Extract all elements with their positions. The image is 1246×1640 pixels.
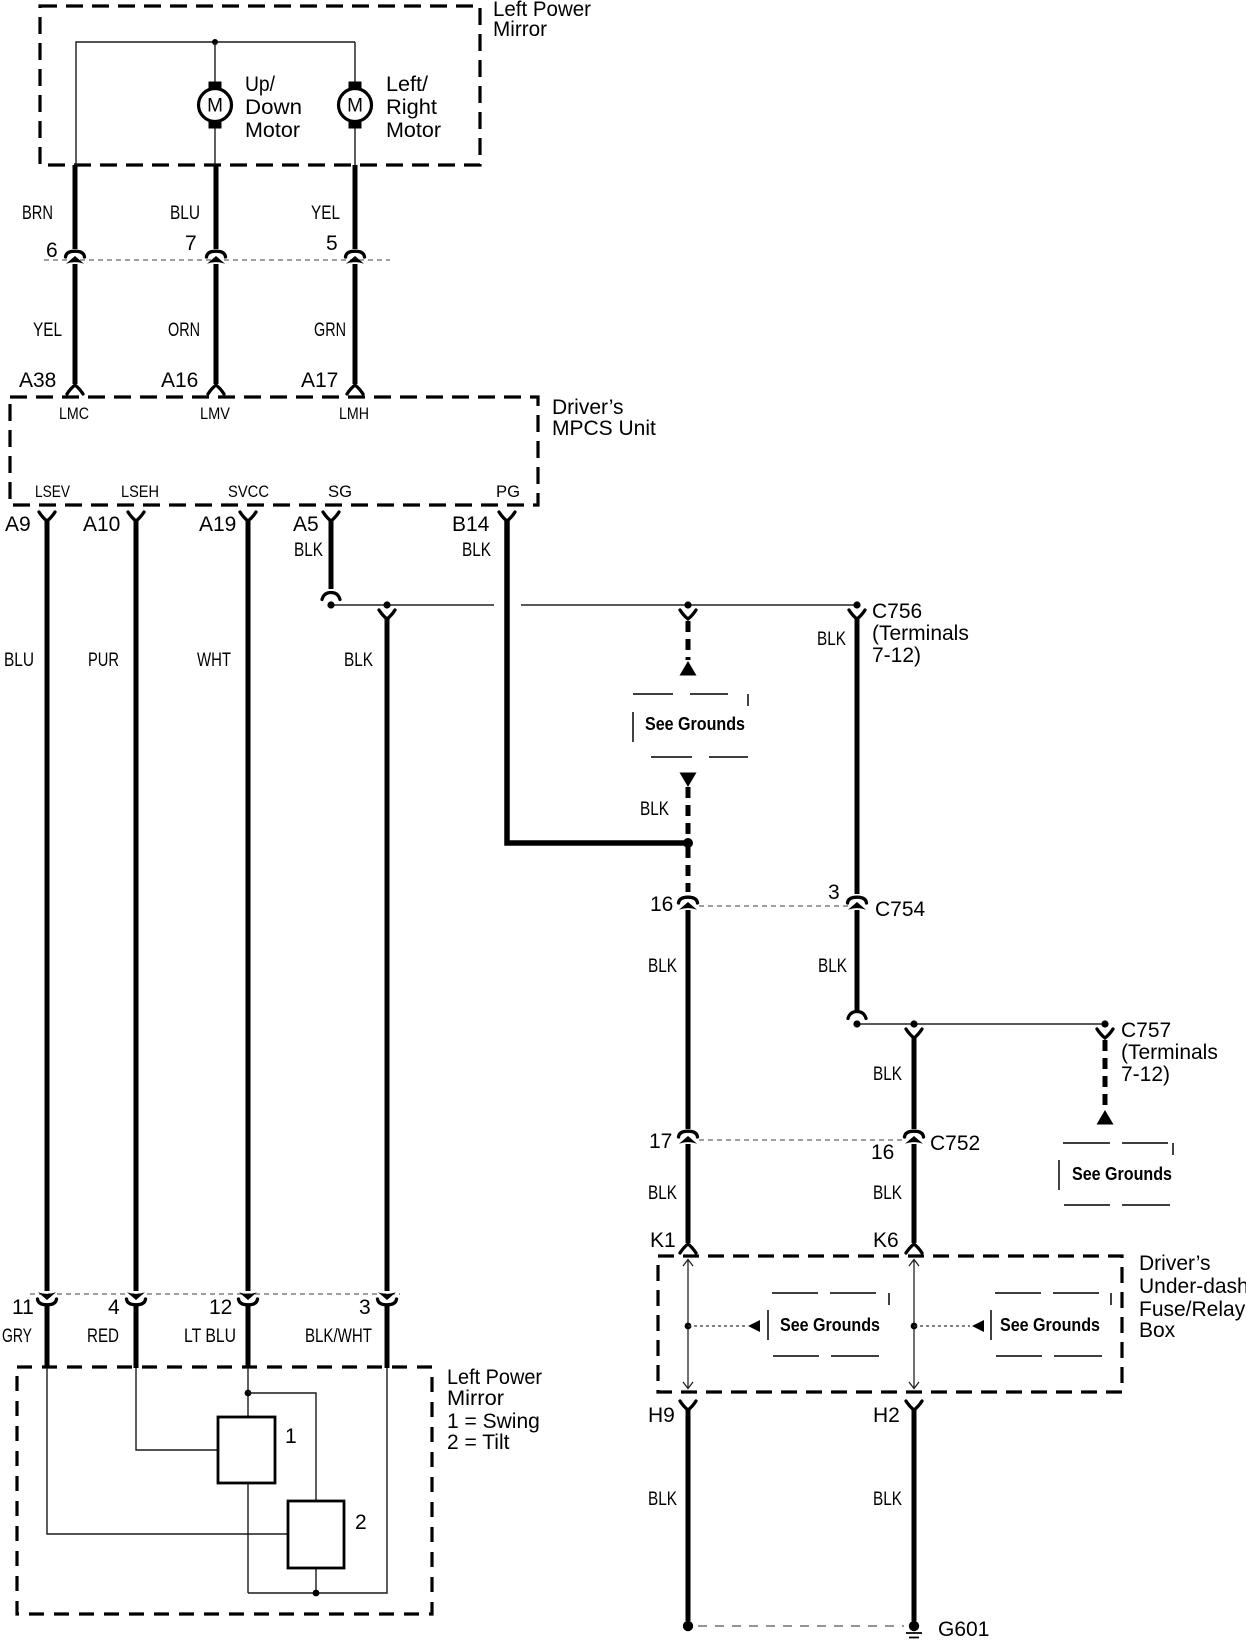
driver's MPCS unit box	[10, 397, 538, 505]
connector 4	[127, 1292, 146, 1305]
wire BLK H9 to G601	[686, 1410, 691, 1621]
wire motor M1 leads	[214, 42, 216, 165]
wire BLK junction to C754 (dashed)	[686, 847, 691, 892]
connector fork K6 into fuse box	[906, 1244, 922, 1253]
svg-text:A5: A5	[293, 513, 319, 536]
label YEL lower	[33, 320, 62, 341]
svg-text:BLK: BLK	[648, 956, 677, 977]
svg-text:PG: PG	[496, 482, 520, 501]
node link line C757 with dots	[853, 1020, 1108, 1027]
svg-text:Under-dash: Under-dash	[1139, 1275, 1246, 1298]
connector C752 pin 16	[905, 1131, 924, 1144]
connector fork B14	[499, 512, 515, 521]
label Driver's MPCS Unit	[552, 396, 656, 440]
svg-text:17: 17	[649, 1130, 672, 1153]
label RED	[87, 1326, 119, 1347]
node G601 dot left	[683, 1621, 693, 1631]
see grounds box 4	[991, 1293, 1111, 1356]
wire BLK C752-16 to K6	[912, 1144, 917, 1243]
svg-text:H2: H2	[873, 1404, 900, 1427]
svg-text:Right: Right	[386, 96, 437, 119]
wire ORN (A16 lower)	[214, 264, 219, 384]
connector fork A9	[39, 512, 55, 521]
label ORN	[168, 320, 200, 341]
svg-text:C756: C756	[872, 600, 922, 623]
label pin A19	[199, 513, 236, 536]
wire fuse box internal K1-H9	[683, 1260, 693, 1389]
label pin A5	[293, 513, 319, 536]
label BLK above K1	[648, 1183, 677, 1204]
svg-text:H9: H9	[648, 1404, 675, 1427]
dashed link line connector row 1	[44, 259, 390, 261]
label 16 at C754	[650, 893, 673, 916]
label C754	[875, 898, 926, 921]
svg-text:A16: A16	[161, 369, 198, 392]
wire PUR A10 long	[134, 521, 139, 1291]
label C757 terminals	[1121, 1019, 1218, 1086]
connector fork H2	[906, 1401, 922, 1410]
connector 11	[38, 1292, 57, 1305]
wire BLU (mirror pin 7 upper)	[214, 165, 219, 249]
label 16 at C752	[871, 1141, 894, 1164]
label pin A17	[301, 369, 338, 392]
svg-text:16: 16	[650, 893, 673, 916]
wire motor M2 leads	[354, 42, 356, 165]
label SVCC	[228, 482, 269, 501]
arrow into see-grounds 2 (up triangle)	[1097, 1110, 1114, 1125]
wire BLK C754-16 to C752-17	[686, 910, 691, 1129]
svg-text:A17: A17	[301, 369, 338, 392]
link to see grounds 3	[688, 1320, 760, 1332]
label G601	[938, 1618, 989, 1640]
svg-text:A19: A19	[199, 513, 236, 536]
svg-text:Fuse/Relay: Fuse/Relay	[1139, 1298, 1246, 1321]
label Left Power Mirror 1=Swing 2=Tilt	[447, 1366, 542, 1454]
see grounds box 2	[1059, 1143, 1173, 1205]
label BLU wire	[4, 650, 34, 671]
svg-text:YEL: YEL	[311, 203, 340, 224]
label K6	[873, 1229, 899, 1252]
svg-text:Mirror: Mirror	[493, 18, 547, 41]
label Up/Down Motor	[245, 73, 302, 142]
label Left Power Mirror (top)	[493, 0, 591, 41]
label BLK C756	[817, 629, 846, 650]
svg-text:LSEH: LSEH	[121, 482, 159, 501]
motor M2 Left/Right	[339, 82, 372, 129]
connector fork A10	[128, 512, 144, 521]
wire BLK H2 to G601	[912, 1410, 917, 1621]
wire GRN (A17 lower)	[353, 264, 358, 384]
ground symbol G601	[906, 1633, 922, 1638]
svg-text:BLU: BLU	[4, 650, 34, 671]
svg-text:BLU: BLU	[170, 203, 200, 224]
link to see grounds 4	[914, 1320, 984, 1332]
connector fork K1 into fuse box	[680, 1244, 696, 1253]
svg-text:BLK: BLK	[873, 1064, 902, 1085]
label K1	[650, 1229, 676, 1252]
label pin A10	[83, 513, 120, 536]
label BRN	[22, 203, 53, 224]
svg-text:BLK: BLK	[462, 540, 491, 561]
arrow out of see-grounds (down triangle)	[680, 773, 697, 788]
label pin 6	[46, 239, 58, 262]
svg-text:Up/: Up/	[245, 73, 275, 96]
connector C754 pin 3	[848, 897, 867, 910]
svg-text:BLK: BLK	[873, 1489, 902, 1510]
svg-text:A10: A10	[83, 513, 120, 536]
label BLK C752 upper	[873, 1064, 902, 1085]
svg-text:MPCS Unit: MPCS Unit	[552, 417, 656, 440]
wire tilt motor bottom	[315, 1568, 317, 1593]
svg-text:K6: K6	[873, 1229, 899, 1252]
label 17 at C752	[649, 1130, 672, 1153]
label C752	[930, 1132, 980, 1155]
svg-text:ORN: ORN	[168, 320, 200, 341]
swing motor box 1	[218, 1417, 275, 1483]
svg-text:SG: SG	[328, 482, 352, 501]
label GRN	[314, 320, 346, 341]
connector 7	[207, 251, 226, 264]
label BLK H2 wire	[873, 1489, 902, 1510]
label BLK under A5	[294, 540, 323, 561]
label pin 7	[185, 232, 197, 255]
label WHT wire	[197, 650, 231, 671]
connector fork A17 into MPCS	[347, 385, 363, 394]
wire GRY internal	[47, 1368, 288, 1534]
svg-text:5: 5	[326, 232, 338, 255]
node dot tilt return	[313, 1590, 320, 1597]
svg-text:GRN: GRN	[314, 320, 346, 341]
label pin A38	[19, 369, 56, 392]
label pin B14	[452, 513, 490, 536]
connector 5	[346, 251, 365, 264]
wire LT BLU lower	[246, 1304, 251, 1368]
svg-text:See Grounds: See Grounds	[1072, 1164, 1172, 1184]
arrow into see-grounds (up triangle)	[680, 661, 697, 676]
label BLK under B14	[462, 540, 491, 561]
svg-text:A9: A9	[5, 513, 31, 536]
svg-text:BLK/WHT: BLK/WHT	[305, 1326, 372, 1347]
wire BLK C752 upper	[912, 1038, 917, 1129]
label C756 terminals	[872, 600, 969, 667]
wire GRY lower	[45, 1304, 50, 1368]
label 3 at C754	[828, 881, 840, 904]
label See Grounds 2	[1072, 1164, 1172, 1184]
node SG link line with dots	[327, 601, 860, 608]
driver's under-dash fuse/relay box	[658, 1256, 1122, 1392]
svg-text:LMV: LMV	[200, 404, 231, 423]
label LMV	[200, 404, 231, 423]
label Left/Right Motor	[386, 73, 441, 142]
label pin A16	[161, 369, 198, 392]
node dot fuse internal left	[685, 1323, 692, 1330]
wire fuse box internal K6-H2	[909, 1260, 919, 1389]
wire LT BLU internal	[247, 1368, 249, 1417]
label pin 5	[326, 232, 338, 255]
svg-text:RED: RED	[87, 1326, 119, 1347]
wire BLK C756 upper	[855, 619, 860, 894]
node dot swing feed	[245, 1390, 252, 1397]
node G601 dot right	[909, 1621, 919, 1631]
connector fork A5	[323, 512, 339, 521]
svg-text:C757: C757	[1121, 1019, 1171, 1042]
label BLK branch wire	[344, 650, 373, 671]
svg-text:6: 6	[46, 239, 58, 262]
svg-text:LT BLU: LT BLU	[184, 1326, 236, 1347]
connector fork H9	[680, 1401, 696, 1410]
svg-text:B14: B14	[452, 513, 490, 536]
svg-text:Mirror: Mirror	[447, 1387, 504, 1410]
svg-text:YEL: YEL	[33, 320, 62, 341]
label PUR wire	[88, 650, 119, 671]
label LSEV	[35, 482, 71, 501]
label 1	[285, 1425, 297, 1448]
connector 6	[66, 251, 85, 264]
see grounds box 3	[768, 1293, 889, 1356]
node junction dot top bus	[212, 39, 218, 45]
connector cup C756 end	[848, 1012, 866, 1019]
connector cup A5 end	[322, 593, 340, 600]
label BLK below C754 left	[648, 956, 677, 977]
wire PG B14 to ground bus	[507, 521, 684, 843]
svg-text:G601: G601	[938, 1618, 989, 1640]
svg-text:Motor: Motor	[386, 119, 441, 142]
svg-text:12: 12	[209, 1296, 232, 1319]
svg-text:BLK: BLK	[344, 650, 373, 671]
wire BLK to junction (dashed)	[686, 787, 691, 839]
svg-text:LMC: LMC	[59, 404, 89, 423]
label pin A9	[5, 513, 31, 536]
svg-text:7-12): 7-12)	[1121, 1063, 1170, 1086]
label LSEH	[121, 482, 159, 501]
label pin 11	[12, 1296, 34, 1319]
label SG	[328, 482, 352, 501]
svg-text:(Terminals: (Terminals	[1121, 1041, 1218, 1064]
connector fork A19	[240, 512, 256, 521]
svg-text:Left Power: Left Power	[447, 1366, 542, 1389]
svg-text:3: 3	[359, 1296, 371, 1319]
svg-text:2: 2	[355, 1511, 367, 1534]
svg-text:BLK: BLK	[648, 1183, 677, 1204]
svg-text:See Grounds: See Grounds	[645, 714, 745, 734]
svg-text:BLK: BLK	[817, 629, 846, 650]
wire BLK branch long	[385, 619, 390, 1291]
label GRY	[2, 1326, 32, 1347]
wire top bus horizontal	[76, 42, 355, 165]
svg-text:1: 1	[285, 1425, 297, 1448]
connector fork A38 into MPCS	[67, 385, 83, 394]
dashed link G601	[698, 1625, 904, 1627]
label YEL	[311, 203, 340, 224]
node junction dot ground bus	[683, 838, 693, 848]
connector fork BLK branch	[379, 610, 395, 619]
svg-text:4: 4	[108, 1296, 120, 1319]
wire YEL (mirror pin 5 upper)	[353, 165, 358, 249]
svg-text:1 = Swing: 1 = Swing	[447, 1410, 540, 1433]
wire swing motor bottom	[247, 1483, 249, 1593]
label BLK above K6	[873, 1183, 902, 1204]
svg-text:BLK: BLK	[873, 1183, 902, 1204]
wire BLK C757 (dashed)	[1103, 1040, 1108, 1108]
connector fork C756 top	[849, 610, 865, 619]
label pin 4	[108, 1296, 120, 1319]
label BLU	[170, 203, 200, 224]
wire BLK C752-17 to K1	[686, 1144, 691, 1243]
label See Grounds 3	[780, 1315, 880, 1335]
svg-text:A38: A38	[19, 369, 56, 392]
label Driver's Under-dash Fuse/Relay Box	[1139, 1252, 1246, 1342]
svg-text:PUR: PUR	[88, 650, 119, 671]
svg-text:Box: Box	[1139, 1319, 1176, 1342]
svg-text:WHT: WHT	[197, 650, 231, 671]
svg-text:Motor: Motor	[245, 119, 300, 142]
label See Grounds 4	[1000, 1315, 1100, 1335]
label BLK ground branch	[640, 799, 669, 820]
connector fork C757 top	[1097, 1029, 1113, 1038]
connector C752 pin 17	[679, 1131, 698, 1144]
wire BLU A9 long	[45, 521, 50, 1291]
connector fork A16 into MPCS	[208, 385, 224, 394]
label pin 12	[209, 1296, 232, 1319]
svg-text:K1: K1	[650, 1229, 676, 1252]
label H2	[873, 1404, 900, 1427]
svg-text:C754: C754	[875, 898, 926, 921]
wire BLK A5 stub	[329, 521, 334, 589]
left power mirror box (bottom)	[17, 1367, 432, 1614]
label H9	[648, 1404, 675, 1427]
label BLK below C754 right	[818, 956, 847, 977]
connector C754 pin 16	[679, 897, 698, 910]
wire BLK to grounds (dashed) upper	[686, 621, 691, 660]
label pin 3	[359, 1296, 371, 1319]
label BLK/WHT	[305, 1326, 372, 1347]
connector 12	[239, 1292, 258, 1305]
left power mirror box (top)	[40, 6, 480, 165]
dashed link line bottom connector row	[30, 1293, 400, 1295]
label BLK H9 wire	[648, 1489, 677, 1510]
wire branch to tilt motor top	[248, 1393, 316, 1501]
svg-text:7-12): 7-12)	[872, 644, 921, 667]
svg-text:SVCC: SVCC	[228, 482, 269, 501]
label LMC	[59, 404, 89, 423]
label 2	[355, 1511, 367, 1534]
connector fork ground branch top	[680, 610, 696, 619]
wire BLK/WHT lower	[385, 1304, 390, 1368]
svg-text:See Grounds: See Grounds	[1000, 1315, 1100, 1335]
connector 3	[378, 1292, 397, 1305]
svg-text:LSEV: LSEV	[35, 482, 71, 501]
svg-text:Left/: Left/	[386, 73, 428, 96]
connector fork C752 branch top	[906, 1029, 922, 1038]
svg-text:GRY: GRY	[2, 1326, 32, 1347]
svg-text:BLK: BLK	[818, 956, 847, 977]
wire BLK C756 lower	[855, 910, 860, 1010]
svg-text:BRN: BRN	[22, 203, 53, 224]
node dot fuse internal right	[911, 1323, 918, 1330]
svg-text:BLK: BLK	[294, 540, 323, 561]
svg-text:11: 11	[12, 1296, 34, 1319]
svg-text:LMH: LMH	[339, 404, 369, 423]
label LT BLU	[184, 1326, 236, 1347]
svg-text:Down: Down	[245, 96, 302, 119]
svg-text:2 = Tilt: 2 = Tilt	[447, 1431, 510, 1454]
label See Grounds 1	[645, 714, 745, 734]
svg-text:BLK: BLK	[640, 799, 669, 820]
wire WHT A19 long	[246, 521, 251, 1291]
svg-text:Driver’s: Driver’s	[552, 396, 624, 419]
svg-text:See Grounds: See Grounds	[780, 1315, 880, 1335]
tilt motor box 2	[288, 1501, 344, 1568]
wire BRN (mirror pin 6 upper)	[73, 165, 78, 249]
wire BLK/WHT internal	[248, 1368, 387, 1593]
svg-text:16: 16	[871, 1141, 894, 1164]
see grounds box 1	[633, 694, 748, 757]
wire YEL (A38 lower)	[73, 264, 78, 384]
label PG	[496, 482, 520, 501]
svg-text:7: 7	[185, 232, 197, 255]
wire RED internal	[136, 1368, 218, 1450]
svg-text:(Terminals: (Terminals	[872, 622, 969, 645]
svg-text:Driver’s: Driver’s	[1139, 1252, 1211, 1275]
dashed link line C754	[699, 905, 851, 907]
wire RED lower	[134, 1304, 139, 1368]
label LMH	[339, 404, 369, 423]
svg-text:BLK: BLK	[648, 1489, 677, 1510]
svg-text:3: 3	[828, 881, 840, 904]
svg-text:C752: C752	[930, 1132, 980, 1155]
dashed link line C752	[699, 1139, 903, 1141]
motor M1 Up/Down	[199, 82, 232, 129]
